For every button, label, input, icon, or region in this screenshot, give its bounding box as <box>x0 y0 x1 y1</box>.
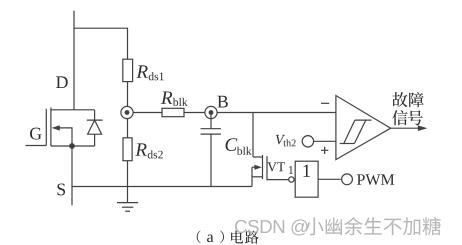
resistor Rblk <box>162 108 184 116</box>
label PWM <box>357 174 394 185</box>
label 1 in box <box>303 165 310 177</box>
wire source rail S <box>72 186 252 188</box>
op-amp U1 comparator <box>336 96 391 160</box>
wire drain lead D <box>73 11 75 110</box>
label D <box>56 76 68 88</box>
label S <box>57 183 65 195</box>
node B test point <box>205 106 217 118</box>
inverter bubble <box>289 177 294 182</box>
wire Rds2 to ground <box>127 161 129 203</box>
watermark CSDN <box>235 219 308 235</box>
gate U2 logic box 1 <box>295 161 318 197</box>
node A test point <box>121 106 133 118</box>
label VT1 <box>267 162 285 171</box>
wire node B to comparator minus input <box>217 112 336 114</box>
minus sign <box>321 102 329 104</box>
label Rds1 <box>136 65 147 77</box>
wire top branch to Rds1 <box>74 28 128 59</box>
wire Rblk to node B <box>184 112 205 114</box>
caption (a) circuit <box>197 230 201 243</box>
label B <box>217 96 227 108</box>
label fault signal line2 <box>392 110 407 125</box>
wire node B branch down to VT1 drain <box>252 113 254 158</box>
label Rblk <box>161 91 172 103</box>
hysteresis symbol <box>340 120 372 143</box>
wire node A to Rds2 <box>127 119 129 138</box>
wire node A to Rblk <box>133 112 162 114</box>
terminal PWM <box>342 174 353 185</box>
wire box to PWM terminal <box>318 178 341 180</box>
terminal Vth2 <box>302 136 313 147</box>
resistor Rds2 <box>123 138 132 161</box>
transistor VT1 <box>252 155 289 187</box>
label Vth2 <box>276 135 285 145</box>
wire Vth2 to comparator plus input <box>314 140 336 142</box>
resistor Rds1 <box>123 59 133 81</box>
ground <box>117 203 138 212</box>
label Cblk <box>226 138 238 151</box>
capacitor Cblk <box>201 113 221 187</box>
label Rds2 <box>135 143 146 155</box>
wire source lead down <box>71 146 73 205</box>
transistor Q1 power MOSFET <box>26 108 75 149</box>
label fault signal line1 <box>392 92 407 107</box>
label G <box>30 128 42 140</box>
wire output with arrow <box>391 127 419 129</box>
plus sign <box>321 147 328 154</box>
wire Rds1 to node A <box>127 82 129 107</box>
diode D1 body diode <box>72 110 103 146</box>
